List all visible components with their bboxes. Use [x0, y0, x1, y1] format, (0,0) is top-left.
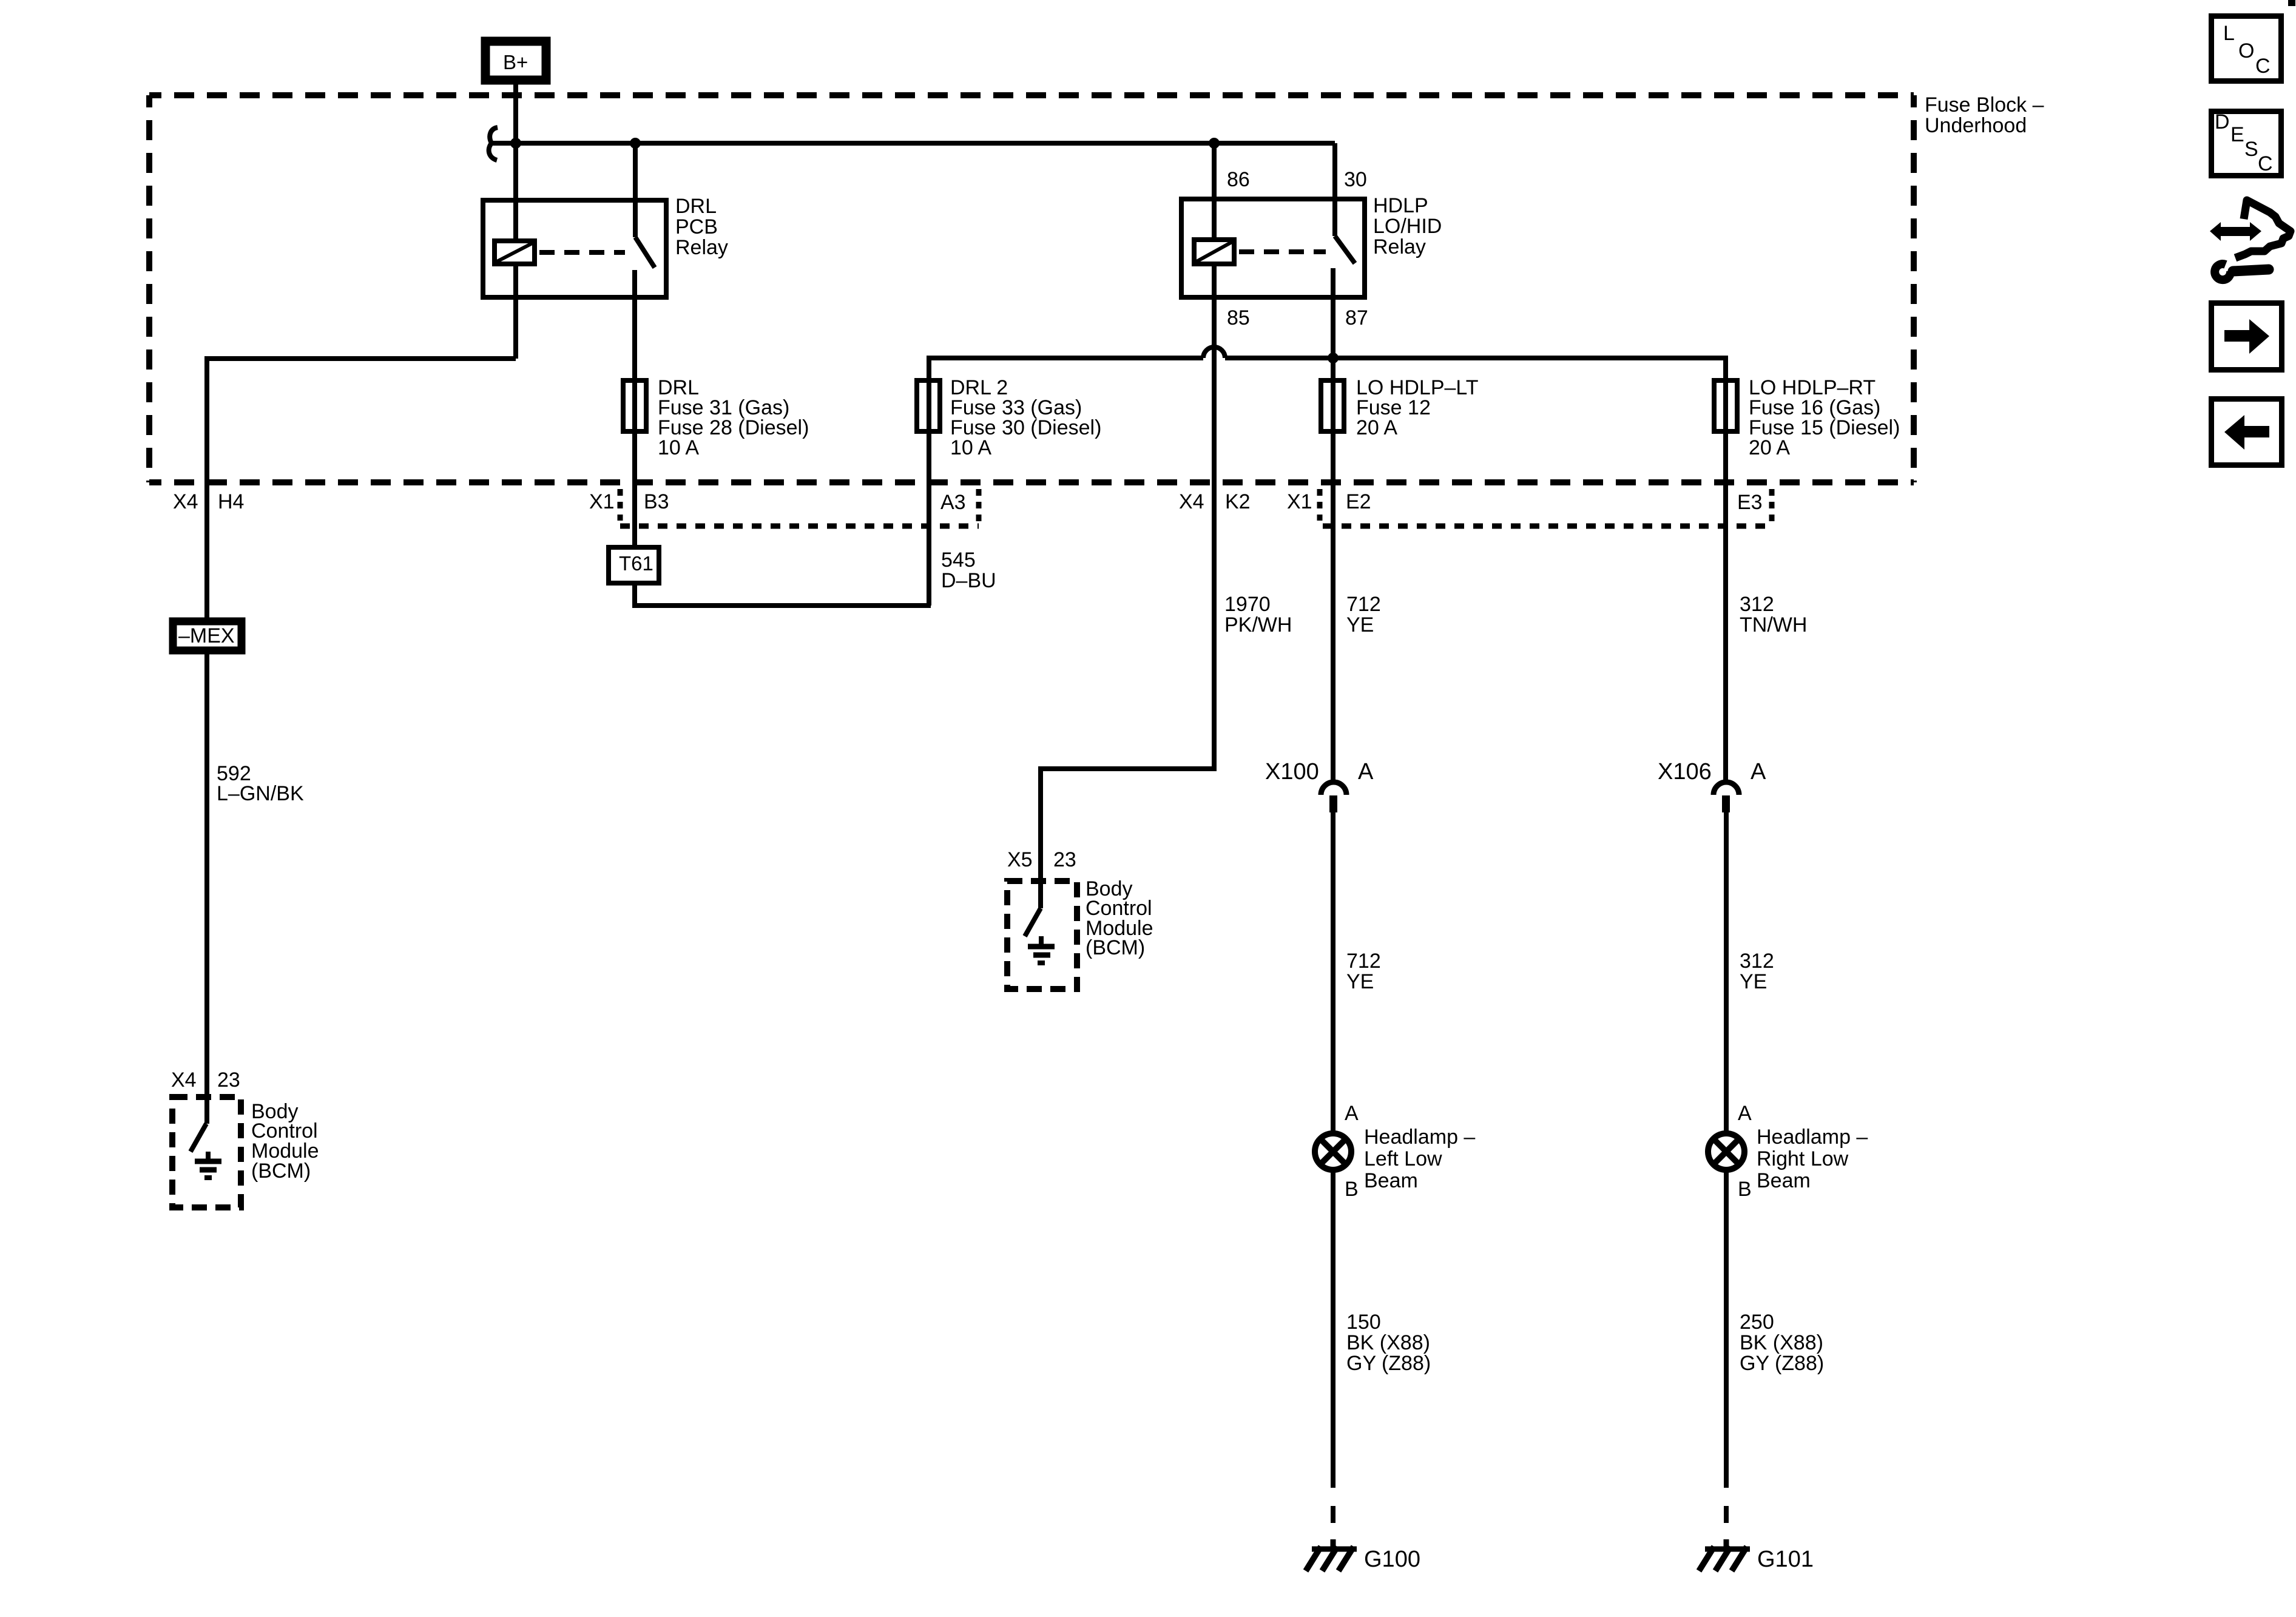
svg-text:D: D: [2215, 110, 2230, 133]
svg-text:10 A: 10 A: [950, 436, 991, 459]
ground G100: [1306, 1539, 1420, 1572]
HDLP relay coil: [1194, 240, 1234, 264]
wire 150 ground leg: [1331, 1170, 1335, 1471]
node HDLP relay 86 junction: [1209, 138, 1220, 149]
wire 712 branch through LT fuse: [1331, 356, 1335, 780]
svg-text:20 A: 20 A: [1356, 416, 1397, 439]
HDLP relay link dashed: [1239, 249, 1326, 254]
wire 545 branch through DRL2 fuse: [927, 356, 931, 606]
svg-text:A: A: [1738, 1102, 1752, 1125]
svg-text:BK (X88): BK (X88): [1346, 1331, 1430, 1354]
svg-text:T61: T61: [619, 552, 653, 575]
svg-text:Relay: Relay: [1373, 235, 1426, 258]
power rail hook symbol: [489, 127, 498, 160]
svg-text:C: C: [2255, 55, 2271, 78]
wire HDLP switch output pin 87: [1331, 268, 1335, 358]
ground G101: [1699, 1539, 1814, 1572]
wire 592 label: [217, 762, 304, 805]
svg-text:85: 85: [1227, 306, 1250, 329]
svg-text:X106: X106: [1658, 759, 1712, 785]
wire 312 label upper: [1740, 593, 1807, 636]
svg-text:A3: A3: [940, 491, 966, 514]
DRL relay coil: [495, 143, 535, 359]
svg-text:Beam: Beam: [1757, 1169, 1811, 1192]
svg-text:B+: B+: [503, 51, 528, 73]
svg-text:GY (Z88): GY (Z88): [1346, 1352, 1431, 1375]
svg-text:GY (Z88): GY (Z88): [1740, 1352, 1824, 1375]
page edge artifact: [2288, 0, 2295, 6]
connector X1 dashed box left: [620, 489, 979, 526]
lamp Headlamp Left Low Beam: [1315, 1102, 1475, 1201]
svg-text:312: 312: [1740, 950, 1774, 973]
BCM X4 internal ground: [195, 1152, 221, 1178]
relay HDLP LO/HID Relay: [1181, 194, 1442, 297]
svg-text:B3: B3: [644, 490, 669, 513]
svg-text:LO/HID: LO/HID: [1373, 215, 1442, 238]
svg-text:K2: K2: [1225, 490, 1251, 513]
svg-text:712: 712: [1346, 593, 1381, 616]
svg-text:A: A: [1358, 759, 1374, 785]
svg-text:BK (X88): BK (X88): [1740, 1331, 1823, 1354]
svg-text:Headlamp –: Headlamp –: [1364, 1126, 1475, 1149]
svg-text:150: 150: [1346, 1311, 1381, 1334]
svg-text:A: A: [1751, 759, 1766, 785]
svg-text:G100: G100: [1364, 1547, 1420, 1572]
connector X106: [1658, 759, 1766, 812]
svg-text:S: S: [2244, 138, 2258, 161]
wire T61 to DRL2 bottom link: [632, 583, 637, 606]
-MEX box: [173, 621, 241, 650]
svg-text:Left Low: Left Low: [1364, 1147, 1442, 1170]
wire to DRL relay switch: [633, 143, 638, 237]
wire 712 lower: [1331, 812, 1335, 1133]
wire hop over pin85 wire: [1203, 347, 1225, 358]
wire to HDLP relay coil: [1212, 143, 1217, 241]
Fuse Block - Underhood dashed box: [149, 93, 2044, 482]
icon connector repair tool: [2210, 200, 2291, 280]
wire dashed to G100: [1331, 1471, 1335, 1546]
node DRL relay 30 junction: [630, 138, 641, 149]
wire to HDLP relay pin 30: [1332, 143, 1337, 236]
module X4 Body Control Module dashed box: [172, 1097, 319, 1207]
wire left branch rail: [204, 356, 516, 361]
svg-text:L: L: [2223, 22, 2235, 45]
svg-text:B: B: [1345, 1178, 1359, 1201]
svg-text:E3: E3: [1737, 491, 1763, 514]
node pin87 to rail: [1328, 353, 1339, 363]
svg-text:YE: YE: [1346, 970, 1374, 993]
node B+ rail junction: [510, 138, 521, 149]
svg-text:Relay: Relay: [675, 236, 728, 259]
wire DRL switch output: [632, 270, 637, 547]
svg-text:X5: X5: [1007, 848, 1033, 871]
fuse LO HDLP-RT: [1714, 376, 1900, 459]
svg-text:312: 312: [1740, 593, 1774, 616]
svg-text:20 A: 20 A: [1749, 436, 1790, 459]
svg-text:30: 30: [1344, 168, 1367, 191]
svg-text:PK/WH: PK/WH: [1224, 613, 1292, 636]
svg-text:HDLP: HDLP: [1373, 194, 1428, 217]
svg-text:E: E: [2230, 123, 2244, 146]
svg-text:L–GN/BK: L–GN/BK: [217, 782, 304, 805]
relay DRL PCB Relay: [483, 195, 728, 297]
fuse DRL 2: [917, 376, 1101, 459]
svg-text:O: O: [2238, 39, 2254, 62]
svg-text:E2: E2: [1346, 490, 1371, 513]
DRL relay switch blade: [635, 237, 655, 268]
svg-text:250: 250: [1740, 1311, 1774, 1334]
icon forward arrow box: [2212, 303, 2282, 370]
svg-text:545: 545: [941, 549, 976, 572]
svg-text:Underhood: Underhood: [1925, 114, 2027, 137]
wire 312 label lower: [1740, 950, 1774, 993]
wire 712 label upper: [1346, 593, 1381, 636]
svg-text:PCB: PCB: [675, 215, 718, 238]
svg-text:87: 87: [1345, 306, 1368, 329]
DRL relay link dashed: [539, 250, 625, 255]
wire B+ drop: [513, 80, 518, 143]
HDLP relay switch blade: [1335, 236, 1355, 263]
icon back arrow box: [2212, 399, 2282, 465]
BCM X4 internal switch: [191, 1124, 206, 1152]
BCM X5 internal ground: [1028, 936, 1055, 963]
svg-text:712: 712: [1346, 950, 1381, 973]
svg-text:23: 23: [217, 1068, 240, 1092]
svg-text:10 A: 10 A: [658, 436, 699, 459]
svg-text:Headlamp –: Headlamp –: [1757, 1126, 1868, 1149]
svg-text:YE: YE: [1346, 613, 1374, 636]
icon DESC box: [2212, 110, 2281, 176]
wire HDLP coil pin 85 down: [1212, 264, 1217, 769]
fuse LO HDLP-LT: [1321, 376, 1479, 439]
wire left column down: [204, 359, 209, 621]
svg-text:Beam: Beam: [1364, 1169, 1418, 1192]
wire 545 label: [941, 549, 996, 592]
connector X1 dashed box right: [1320, 489, 1772, 526]
fuse DRL: [623, 376, 809, 459]
T61 splice box: [609, 547, 659, 583]
wire dashed to G101: [1724, 1471, 1729, 1546]
wire -MEX to BCM: [204, 650, 209, 1124]
connector X100: [1265, 759, 1374, 812]
svg-text:X1: X1: [589, 490, 615, 513]
svg-text:H4: H4: [218, 490, 244, 513]
svg-text:A: A: [1345, 1102, 1359, 1125]
svg-text:(BCM): (BCM): [1086, 936, 1145, 959]
icon LOC box: [2212, 16, 2281, 81]
wire 250 ground leg: [1724, 1170, 1729, 1471]
wire 312 lower: [1724, 812, 1729, 1133]
svg-text:(BCM): (BCM): [251, 1160, 311, 1183]
svg-text:X4: X4: [173, 490, 198, 513]
B+ battery feed box: [485, 41, 546, 80]
svg-text:G101: G101: [1757, 1547, 1814, 1572]
svg-text:Fuse Block –: Fuse Block –: [1925, 93, 2044, 116]
svg-text:86: 86: [1227, 168, 1250, 191]
svg-text:TN/WH: TN/WH: [1740, 613, 1807, 636]
wire 312 branch through RT fuse: [1723, 356, 1728, 780]
svg-text:Right Low: Right Low: [1757, 1147, 1849, 1170]
svg-text:–MEX: –MEX: [178, 624, 235, 647]
BCM X5 internal switch: [1025, 908, 1041, 936]
svg-text:C: C: [2258, 152, 2273, 175]
svg-text:X4: X4: [1179, 490, 1204, 513]
wire top feed rail: [491, 141, 1335, 146]
svg-text:X100: X100: [1265, 759, 1319, 785]
wire 150 label: [1346, 1311, 1431, 1375]
svg-text:B: B: [1738, 1178, 1752, 1201]
svg-text:X1: X1: [1287, 490, 1312, 513]
module X5 Body Control Module dashed box: [1007, 877, 1153, 989]
wire 1970 horizontal to BCM: [1038, 766, 1217, 771]
wire 250 label: [1740, 1311, 1824, 1375]
wire 1970 label: [1224, 593, 1292, 636]
svg-text:X4: X4: [171, 1068, 197, 1092]
svg-text:DRL: DRL: [675, 195, 717, 218]
wire 712 label lower: [1346, 950, 1381, 993]
svg-text:D–BU: D–BU: [941, 569, 996, 592]
svg-text:YE: YE: [1740, 970, 1767, 993]
svg-text:1970: 1970: [1224, 593, 1271, 616]
wire low-beam feed rail: [927, 356, 1728, 360]
svg-text:23: 23: [1053, 848, 1076, 871]
lamp Headlamp Right Low Beam: [1708, 1102, 1868, 1201]
